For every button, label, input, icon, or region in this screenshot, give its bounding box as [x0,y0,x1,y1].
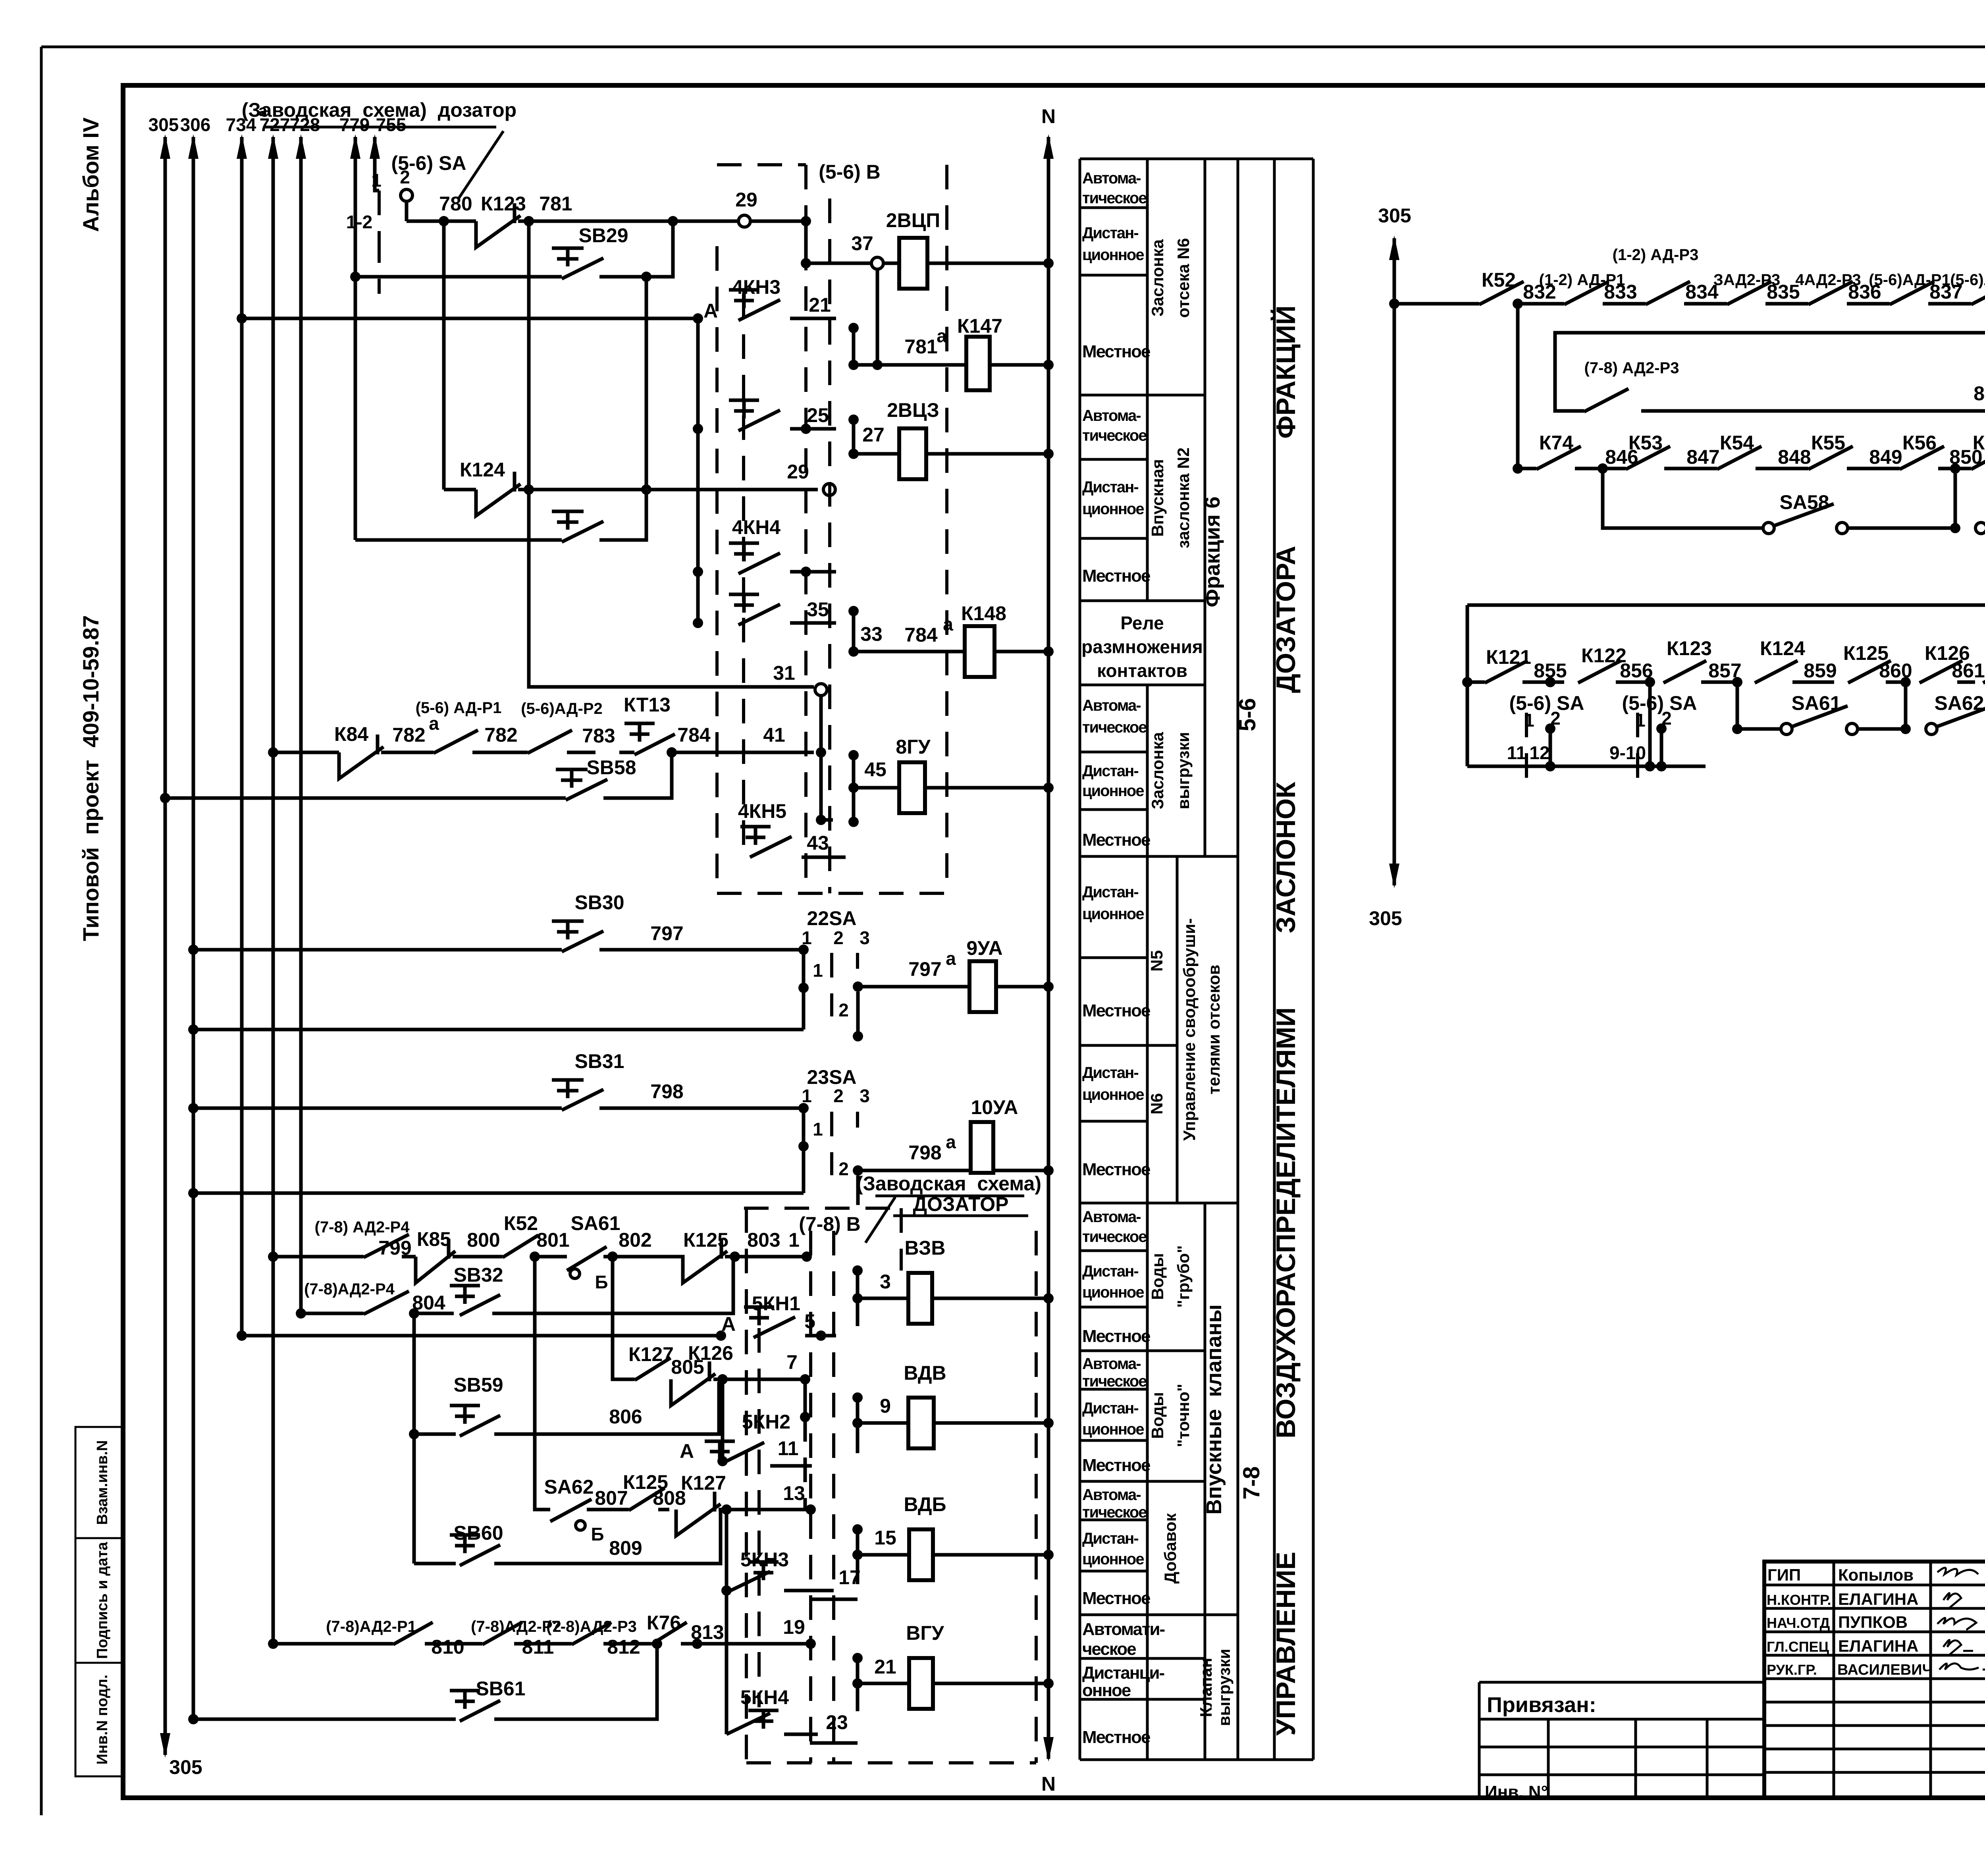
svg-text:N5: N5 [1147,950,1166,972]
svg-text:УПРАВЛЕНИЕ: УПРАВЛЕНИЕ [1271,1552,1301,1735]
svg-text:К121: К121 [1486,646,1531,668]
node 1820-3474 [717,1374,728,1384]
svg-text:ционное: ционное [1082,246,1144,264]
wire return y3005 [193,1192,804,1195]
svg-text:SB31: SB31 [574,1050,624,1072]
svg-text:К148: К148 [961,602,1006,625]
svg-text:41: 41 [763,724,785,746]
svg-text:Дистанци-: Дистанци- [1082,1663,1164,1683]
contact K84 NC [334,723,434,779]
svg-text:5КН4: 5КН4 [740,1686,789,1708]
svg-text:801: 801 [536,1229,569,1251]
bus 305 right [1369,204,1411,929]
svg-text:ционное: ционное [1082,905,1144,923]
bus 305 left [148,114,202,1778]
node 1695-557 [668,216,678,226]
svg-text:Впускная: Впускная [1148,459,1167,537]
contact K124 NC [460,459,818,516]
node 688-1895 [268,747,278,758]
contact AD-P1 [416,699,528,753]
node 13-term [806,1504,816,1515]
node 781 [524,216,534,226]
svg-text:7: 7 [786,1351,798,1373]
svg-text:SB58: SB58 [586,756,636,779]
contact AT-5KH2-11 [680,1411,812,1466]
contact 78AD2-P3 [1555,359,1679,412]
svg-text:К126: К126 [688,1342,733,1364]
svg-text:SB29: SB29 [578,224,628,247]
svg-text:2: 2 [833,927,844,948]
wire SB31 rung 798 y2791 [193,1107,804,1110]
contact 4AD2-P3 [1795,271,1890,305]
svg-text:3: 3 [860,927,870,948]
svg-text:Автома-: Автома- [1082,407,1141,424]
svg-text:13: 13 [783,1482,805,1504]
node 2150-1539 [848,606,859,616]
node SB29-1628 [641,272,651,282]
svg-text:23SA: 23SA [807,1066,856,1088]
svg-text:35: 35 [807,598,829,621]
loop corner down [1555,304,1985,392]
branch 1628 down [645,277,648,490]
node 1039-3612 [409,1429,419,1439]
svg-text:Воды: Воды [1148,1392,1167,1439]
node 803 [730,1251,740,1262]
node 487-3005 [188,1188,198,1198]
svg-text:К74: К74 [1539,432,1573,454]
svg-text:Клапан: Клапан [1197,1658,1215,1717]
dashed 2100 [832,1231,835,1763]
wire SB61 rung y4330 [193,1644,657,1719]
dashed 2270 [900,1208,903,1271]
dashed box top [717,163,806,166]
svg-text:12: 12 [1529,742,1549,763]
svg-text:15: 15 [874,1527,896,1549]
svg-text:833: 833 [1604,281,1637,303]
svg-text:заслонка N2: заслонка N2 [1174,447,1193,548]
dashed terminal line [804,165,807,893]
strip seg 5KH2 to 13 [804,1417,807,1510]
svg-text:ционное: ционное [1082,1550,1144,1568]
svg-text:ВГУ: ВГУ [906,1622,944,1644]
node 801 [530,1251,540,1262]
branch 850 down [1954,469,1957,528]
svg-text:Местное: Местное [1082,1160,1150,1179]
branch 1536 from 802 [613,1257,635,1379]
svg-text:тическое: тическое [1082,427,1147,444]
svg-text:2ВЦП: 2ВЦП [886,209,940,231]
wire rung 799 y3165 [273,1255,364,1259]
selector 22SA [798,907,870,1041]
svg-text:8ГУ: 8ГУ [896,736,931,758]
contact SA62r [1926,692,1985,735]
svg-text:(5-6) В: (5-6) В [819,161,881,183]
svg-text:ДОЗАТОРА: ДОЗАТОРА [1271,546,1301,693]
branch 832 down [1516,304,1520,469]
svg-text:тическое: тическое [1082,1228,1147,1246]
svg-text:Местное: Местное [1082,1728,1150,1747]
svg-text:a: a [943,614,953,634]
svg-text:ЕЛАГИНА: ЕЛАГИНА [1838,1637,1918,1655]
contact 3AD2-P3 [1713,271,1808,305]
svg-text:отсека N6: отсека N6 [1174,238,1193,318]
svg-text:21: 21 [809,294,831,316]
svg-text:2: 2 [838,1000,849,1020]
contact AD2-P3 812 [546,1618,651,1658]
rung2 right y1180 [1518,432,1985,474]
branch 781 down [529,221,534,687]
svg-text:a: a [946,948,956,969]
wire rung 41 y1895 [273,751,339,754]
svg-text:19: 19 [783,1616,805,1638]
contact AD2-P2 811 [471,1618,572,1658]
svg-text:810: 810 [431,1636,464,1658]
strip T1 vertical [696,318,700,623]
svg-text:11: 11 [1507,742,1526,763]
node 487-2593 [188,1024,198,1035]
svg-text:1: 1 [813,1119,823,1139]
wire rung 19 y4140 [273,1642,393,1646]
N bus of left schematic [1041,105,1056,1795]
svg-text:К53: К53 [1628,432,1663,454]
svg-text:9: 9 [880,1395,891,1417]
contact 1-2AD-P3 [1613,246,1727,305]
svg-text:(5-6)АД-Р2: (5-6)АД-Р2 [1950,271,1985,289]
contact SA62 [544,1476,629,1544]
contact 35 [693,594,836,628]
node 19-term [806,1639,816,1649]
svg-text:Альбом IV: Альбом IV [78,118,103,232]
svg-text:тическое: тическое [1082,1504,1147,1521]
signature squiggles [1937,1568,1985,1670]
svg-text:27: 27 [862,424,885,446]
svg-text:782: 782 [484,724,517,746]
svg-text:797: 797 [908,958,941,980]
svg-text:798: 798 [908,1141,941,1164]
dashed line 2385 [945,165,948,893]
svg-text:ционное: ционное [1082,1421,1144,1438]
contact 56AD-P2 [1950,271,1985,305]
svg-text:"грубо": "грубо" [1174,1245,1193,1307]
svg-text:К84: К84 [334,723,368,745]
svg-text:Б: Б [595,1272,608,1292]
svg-text:798: 798 [650,1080,683,1103]
node 4376-1836 [1732,724,1742,734]
svg-text:2ВЦЗ: 2ВЦЗ [887,399,939,421]
rele razmnozhenia band [1081,613,1203,681]
node 2150-2070 [848,817,859,827]
svg-text:Автома-: Автома- [1082,1355,1141,1373]
svg-text:телями отсеков: телями отсеков [1204,965,1223,1095]
svg-text:(Заводская схема) дозатор: (Заводская схема) дозатор [242,99,516,121]
svg-text:1-2: 1-2 [346,212,372,232]
svg-text:Заслонка: Заслонка [1148,732,1167,809]
svg-text:ВДБ: ВДБ [904,1493,946,1515]
selector 23SA [798,1066,870,1205]
dashed box 7-8 top [744,1207,901,1210]
contact SA58 [1763,491,1955,534]
post 2150-1539 [852,611,856,652]
left stamp boxes [75,1427,122,1776]
svg-text:Местное: Местное [1082,566,1150,586]
node 4156-1930 [1645,761,1655,771]
terminal 29 second [823,484,835,496]
svg-text:848: 848 [1778,446,1811,468]
node 1043-3308 [409,1308,419,1319]
svg-text:Местное: Местное [1082,1327,1150,1346]
node 2030-663 [801,258,811,268]
rung K121-K127 y1718 [1467,637,1985,687]
svg-text:(5-6) АД-Р1: (5-6) АД-Р1 [416,699,502,717]
svg-text:Дистан-: Дистан- [1082,224,1138,242]
node 416-2010 [160,793,170,803]
svg-text:780: 780 [439,193,472,215]
dashed box bottom [746,1761,1036,1764]
svg-text:Дистан-: Дистан- [1082,883,1138,901]
node 688-4140 [268,1639,278,1649]
svg-text:К127: К127 [681,1472,726,1494]
svg-text:Дистан-: Дистан- [1082,1530,1138,1547]
wire long rung y3364 [242,1334,721,1338]
svg-text:783: 783 [582,725,615,747]
svg-text:тическое: тическое [1082,719,1147,736]
wire 841 [1641,409,1985,413]
wire rung 804 y3308 [301,1312,364,1315]
svg-text:ционное: ционное [1082,500,1144,518]
svg-text:(Заводская схема): (Заводская схема) [856,1172,1041,1195]
svg-text:802: 802 [619,1229,651,1251]
svg-text:800: 800 [467,1229,500,1251]
button SB59 [450,1374,642,1436]
node 832 [1513,299,1523,309]
contact AT-21 4KH3 [703,276,836,322]
svg-text:SB60: SB60 [453,1522,503,1544]
big rotated column text [1270,305,1301,1735]
coil rung 15 / VDB y3916 [852,1493,1054,1584]
svg-text:7-8: 7-8 [1239,1466,1264,1500]
button SB32 [414,1257,733,1315]
block bottom wire [1467,765,1706,768]
post 2030-557-663 [804,221,808,263]
svg-text:N: N [1041,105,1056,127]
svg-text:К52: К52 [504,1212,538,1234]
branch 1043 down [412,1313,416,1564]
contact K123 NC [476,193,529,247]
node 41 on strip [816,747,826,758]
svg-text:33: 33 [860,623,883,645]
svg-text:размножения: размножения [1081,636,1203,657]
svg-text:Инв.N подл.: Инв.N подл. [94,1675,111,1765]
svg-text:782: 782 [392,724,425,746]
svg-text:Местное: Местное [1082,1589,1150,1608]
contact AT-5KH1 [721,1292,836,1341]
node 3823-1180 [1513,463,1523,474]
svg-text:811: 811 [522,1636,554,1658]
node 4925-1330 [1950,523,1960,533]
privyazan block [1479,1682,1764,1798]
coil rung 798a / 10UA y2948 [858,1096,1054,1176]
contact AD-P2 [521,700,615,753]
svg-text:онное: онное [1082,1681,1131,1700]
node 802 [607,1251,618,1262]
post 37 down [876,269,879,365]
svg-text:ЗАСЛОНОК: ЗАСЛОНОК [1271,782,1301,933]
rung1 right y765 [1394,302,1479,306]
contact K127 805 [628,1343,704,1380]
svg-text:31: 31 [773,662,795,684]
svg-text:861: 861 [1952,659,1985,682]
svg-text:1: 1 [813,960,823,981]
svg-text:выгрузки: выгрузки [1174,732,1193,810]
table frame verticals [1080,159,1313,1760]
svg-text:К147: К147 [957,315,1002,337]
svg-text:тическое: тическое [1082,189,1147,207]
svg-text:2: 2 [400,167,410,187]
svg-text:Автома-: Автома- [1082,697,1141,714]
svg-text:809: 809 [609,1537,642,1559]
contact 5KH4-23 [727,1686,858,1743]
contact SA61r [1781,692,1906,735]
svg-text:4КН5: 4КН5 [738,800,786,822]
contact K127 NC [676,1472,811,1536]
strip seg 7 to 5KH2 [804,1379,807,1417]
contact AD2-P4 804 [304,1280,445,1314]
svg-text:Впускные клапаны: Впускные клапаны [1202,1304,1226,1515]
svg-text:Взам.инв.N: Взам.инв.N [94,1440,111,1525]
svg-text:859: 859 [1804,659,1837,682]
svg-text:ЕЛАГИНА: ЕЛАГИНА [1838,1590,1918,1608]
branch 861 down [1904,682,1908,729]
svg-text:Автома-: Автома- [1082,1208,1141,1226]
node 779-697 [350,272,360,282]
svg-text:a: a [937,326,947,346]
svg-text:5-6: 5-6 [1235,698,1260,731]
node 780 [439,216,449,226]
coil rung 21 / VGU y4240 [852,1622,1054,1711]
svg-text:А: А [680,1440,694,1462]
svg-text:Копылов: Копылов [1838,1566,1914,1584]
svg-text:N: N [1041,1773,1056,1795]
post 2150 upper [852,328,856,365]
node 1628-1233 [641,484,651,495]
contact K52 [503,1212,538,1257]
terminal 29 [738,215,750,227]
node 2034-3569 [800,1412,810,1422]
dashed mech link [742,294,745,858]
contact SA61 [535,1212,621,1292]
signature names [1767,1566,1933,1678]
node 487-2791 [188,1103,198,1113]
svg-text:305: 305 [148,114,179,135]
row labels col1 [1082,170,1165,1747]
contact 4KH4 [693,516,836,577]
svg-text:SA61: SA61 [570,1212,620,1234]
svg-text:ГИП: ГИП [1767,1566,1801,1584]
button SB31 [552,1050,684,1110]
svg-text:Местное: Местное [1082,1001,1150,1020]
svg-text:(5-6) SA: (5-6) SA [1509,692,1584,714]
button SB30 [552,891,684,952]
dashed left edge 7-8 [745,1208,748,1763]
branch 856 down [1648,682,1652,766]
svg-text:SB59: SB59 [453,1374,503,1396]
svg-text:К57: К57 [1973,432,1985,454]
svg-text:784: 784 [677,724,711,746]
wire SB58 rung y2010 [165,752,672,798]
dashed box bottom [717,892,947,895]
svg-text:КТ13: КТ13 [624,694,671,716]
coil rung 797a / 9UA y2485 [858,937,1054,1012]
svg-text:10УА: 10УА [971,1096,1018,1118]
svg-text:Воды: Воды [1148,1253,1167,1300]
svg-text:Местное: Местное [1082,342,1150,361]
svg-text:ционное: ционное [1082,782,1144,800]
wire rung y802 [242,317,698,320]
svg-text:К123: К123 [481,193,526,215]
node 1758-802 [693,313,703,324]
svg-text:Автомати-: Автомати- [1082,1620,1165,1639]
dashed terminal 2042 [809,1231,812,1763]
bus 727 [260,114,290,1644]
svg-text:(7-8)АД2-Р4: (7-8)АД2-Р4 [304,1280,395,1298]
svg-text:Фракция 6: Фракция 6 [1201,496,1224,607]
svg-text:ВАСИЛЕВИЧ: ВАСИЛЕВИЧ [1837,1662,1933,1678]
K121 block top wire [1467,603,1985,607]
SA61 wire right [1737,682,1781,729]
svg-text:К55: К55 [1811,432,1845,454]
dashed line 2090 [828,199,831,893]
node 1816-3364 [716,1330,726,1341]
svg-text:Добавок: Добавок [1161,1513,1179,1583]
svg-text:Н.КОНТР.: Н.КОНТР. [1767,1592,1831,1608]
svg-text:К56: К56 [1902,432,1937,454]
svg-text:К54: К54 [1720,432,1754,454]
svg-text:SA62: SA62 [544,1476,594,1498]
node 609-802 [237,313,247,324]
svg-text:Инв. N°: Инв. N° [1485,1782,1548,1802]
svg-text:ческое: ческое [1082,1639,1136,1659]
svg-text:Дистан-: Дистан- [1082,1064,1138,1082]
svg-text:Автома-: Автома- [1082,170,1141,187]
svg-text:(7-8)АД2-Р1: (7-8)АД2-Р1 [326,1618,416,1635]
svg-text:(7-8) В: (7-8) В [799,1213,861,1235]
contact 5KH3-17 [721,1548,861,1599]
svg-text:ГЛ.СПЕЦ: ГЛ.СПЕЦ [1767,1639,1829,1655]
svg-text:9-10: 9-10 [1609,742,1646,763]
svg-text:25: 25 [807,404,829,426]
svg-text:(7-8) АД2-Р3: (7-8) АД2-Р3 [1584,359,1679,377]
selector SA 5-6 top [346,152,466,294]
svg-text:803: 803 [747,1229,780,1251]
svg-text:Дистан-: Дистан- [1082,1400,1138,1417]
node 688-3165 [268,1251,278,1262]
K121 block left vertical [1466,605,1469,766]
svg-text:ФРАКЦИЙ: ФРАКЦИЙ [1270,305,1301,438]
svg-text:21: 21 [874,1656,896,1678]
node 2150-1902 [848,750,859,760]
outer page border top [41,46,1985,48]
svg-text:ционное: ционное [1082,1086,1144,1103]
svg-text:Типовой проект 409-10-59.87: Типовой проект 409-10-59.87 [78,615,103,941]
svg-text:К124: К124 [460,459,505,481]
svg-text:4КН3: 4КН3 [732,276,781,298]
coil rung 45 / 8GU y1984 [848,736,1054,813]
wire rung 780-781 y557 [407,220,476,223]
svg-text:ВОЗДУХОРАСПРЕДЕЛИТЕЛЯМИ: ВОЗДУХОРАСПРЕДЕЛИТЕЛЯМИ [1271,1007,1301,1438]
rotated group labels col2 [1147,238,1264,1726]
svg-text:4КН4: 4КН4 [732,516,781,538]
svg-text:1: 1 [371,170,382,191]
